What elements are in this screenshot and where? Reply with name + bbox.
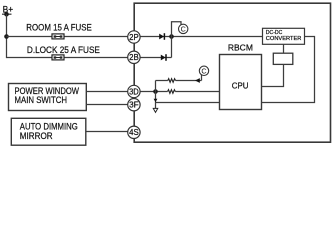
wire dlock fuse line [7,57,132,59]
svg-text:3F: 3F [129,101,139,110]
wire 2B branch up to junction [171,37,173,58]
svg-text:CONVERTER: CONVERTER [266,36,302,42]
RBCM outer frame [134,3,330,142]
svg-text:2P: 2P [129,33,139,42]
wire upper branch right part [176,80,202,82]
svg-text:4S: 4S [129,128,139,137]
connector 2B [128,51,140,63]
box AUTO DIMMING MIRROR [11,118,86,145]
open arrow down (off-page) [153,108,158,112]
svg-text:D.LOCK 25 A FUSE: D.LOCK 25 A FUSE [27,45,100,55]
resistor R1 (3D line) [168,90,176,94]
wire junction up to connector C ref [172,22,182,37]
svg-text:C: C [181,25,186,34]
connector 3D [128,85,140,97]
CPU box [220,55,262,110]
connector 4S [128,126,140,138]
wire 2B to diode [135,57,172,59]
connector 2P [128,31,140,43]
svg-text:ROOM 15 A FUSE: ROOM 15 A FUSE [26,23,92,33]
wire upper branch left part [156,80,168,82]
wire up to connector C ref 2 [201,75,203,81]
junction dot 3D [153,89,158,94]
connector ref C (top) [179,24,188,33]
wire converter right to CPU right [262,37,315,103]
DC-DC converter box [263,28,305,44]
svg-text:DC-DC: DC-DC [266,30,283,36]
B+ terminal bar [2,13,12,15]
fuse D.LOCK 25A [52,55,64,60]
connector 3F [128,99,140,111]
svg-text:2B: 2B [129,53,139,62]
wire resistor block to CPU right [262,64,284,86]
wire converter bottom to resistor block [283,44,285,53]
box POWER WINDOW MAIN SWITCH [9,84,87,111]
diode D2 [161,54,166,61]
wire branch up [155,81,157,92]
junction dot B+ [4,12,9,17]
resistor R2 (upper branch) [168,79,176,83]
wire resistor to CPU [175,91,219,93]
wire switch to 3D [86,91,133,93]
arrow left (to C ref) [195,78,200,83]
fuse ROOM 15A [52,34,64,39]
arrow down (into tee) [154,99,158,103]
wire B+ rail vertical [6,14,8,58]
diode D1 [159,33,164,40]
wire tee to CPU [156,102,220,104]
svg-text:CPU: CPU [232,81,249,90]
svg-text:C: C [201,66,206,75]
wire 3D to resistor [135,91,168,93]
connector ref C (middle) [199,66,208,75]
wire room fuse line [7,36,132,38]
wire switch to 3F [86,104,133,106]
resistor block (below converter) [273,53,293,64]
wire mirror to 4S [86,131,133,133]
junction dot after diodes [169,34,174,39]
wire 2P to converter [135,36,263,38]
junction dot room branch [4,34,9,39]
svg-text:3D: 3D [129,87,139,96]
wire junction down [155,92,157,109]
svg-text:RBCM: RBCM [228,43,253,53]
svg-text:MIRROR: MIRROR [20,131,53,141]
svg-text:MAIN SWITCH: MAIN SWITCH [15,95,68,105]
